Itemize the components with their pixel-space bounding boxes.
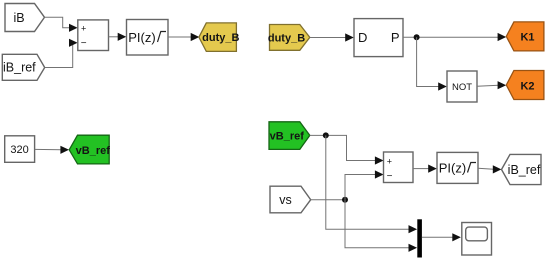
from tag duty_B (right chain) xyxy=(268,25,310,51)
wire vB_ref to sum2 plus xyxy=(310,135,376,160)
arrowhead into scope xyxy=(452,233,461,241)
wire vB_ref junction down to mux in1 xyxy=(326,135,410,229)
junction on vB_ref wire xyxy=(323,132,329,138)
arrowhead into PI xyxy=(118,33,127,41)
arrowhead into K2 xyxy=(498,81,507,89)
wire sum to PI xyxy=(109,36,119,38)
NOT block xyxy=(447,71,477,102)
svg-text:P: P xyxy=(391,30,400,45)
svg-text:PI(z): PI(z) xyxy=(128,30,155,45)
arrowhead into sum + xyxy=(69,24,78,32)
svg-text:−: − xyxy=(81,38,87,49)
PI controller block U1 xyxy=(127,20,169,56)
mux xyxy=(417,219,422,257)
arrowhead into duty_B xyxy=(191,33,200,41)
goto tag duty_B xyxy=(199,23,240,52)
sum block S1 xyxy=(78,20,109,51)
arrowhead into K1 xyxy=(498,33,507,41)
goto tag K2 xyxy=(506,71,544,100)
sum block S2 xyxy=(384,152,414,183)
svg-text:vB_ref: vB_ref xyxy=(76,145,111,157)
wire 320 to vB_ref xyxy=(35,148,62,150)
goto tag iB_ref xyxy=(502,154,542,184)
svg-text:PI(z): PI(z) xyxy=(439,160,466,175)
svg-text:K2: K2 xyxy=(520,80,534,92)
wire PI to duty_B xyxy=(168,36,192,38)
junction on vs wire xyxy=(342,197,348,203)
wire P to K1 xyxy=(403,36,499,38)
svg-text:iB_ref: iB_ref xyxy=(508,163,541,177)
wire junction down to NOT xyxy=(417,37,439,86)
svg-text:iB_ref: iB_ref xyxy=(3,61,36,75)
scope block xyxy=(462,223,492,256)
from tag iB_ref xyxy=(2,54,44,80)
svg-text:D: D xyxy=(358,30,367,45)
arrowhead into mux in1 xyxy=(409,225,418,233)
wire sum2 to PI2 xyxy=(413,168,429,170)
svg-text:+: + xyxy=(81,23,86,33)
from tag vs xyxy=(270,186,311,213)
subsystem block D/P xyxy=(354,19,403,57)
svg-text:duty_B: duty_B xyxy=(268,32,305,44)
wire vs junction up to sum2 minus xyxy=(345,175,376,200)
wire PI2 to iB_ref xyxy=(478,168,494,169)
wire vs to junction xyxy=(311,199,345,201)
PI controller block U2 xyxy=(437,152,478,183)
wire iB_ref to sum xyxy=(45,43,74,68)
svg-text:vs: vs xyxy=(279,193,292,207)
from tag iB xyxy=(5,4,45,32)
arrowhead into PI2 xyxy=(428,165,437,173)
svg-text:−: − xyxy=(387,171,393,182)
svg-text:K1: K1 xyxy=(520,32,534,44)
wire mux to scope xyxy=(422,236,453,238)
svg-text:duty_B: duty_B xyxy=(202,32,239,44)
junction on P wire xyxy=(414,34,420,40)
arrowhead into sum2 - xyxy=(375,170,384,178)
wire vs junction down to mux in2 xyxy=(345,200,410,248)
constant block 320 xyxy=(5,136,35,163)
arrowhead into NOT xyxy=(438,82,447,90)
wire NOT to K2 xyxy=(477,85,499,86)
wire iB to sum xyxy=(45,17,71,28)
svg-text:NOT: NOT xyxy=(452,82,472,93)
arrowhead into subsystem D xyxy=(345,33,354,41)
svg-text:iB: iB xyxy=(13,11,24,25)
wire duty_B to subsystem xyxy=(310,37,346,39)
svg-text:320: 320 xyxy=(10,144,28,156)
svg-text:vB_ref: vB_ref xyxy=(270,130,305,142)
arrowhead into mux in2 xyxy=(409,244,418,252)
arrowhead into vB_ref xyxy=(60,146,69,154)
arrowhead into sum - xyxy=(69,39,78,47)
goto tag vB_ref xyxy=(69,135,110,164)
from tag vB_ref (bottom chain) xyxy=(269,122,310,150)
goto tag K1 xyxy=(506,22,544,51)
arrowhead into sum2 + xyxy=(375,156,384,164)
arrowhead into iB_ref xyxy=(493,165,502,173)
svg-text:+: + xyxy=(387,156,392,166)
